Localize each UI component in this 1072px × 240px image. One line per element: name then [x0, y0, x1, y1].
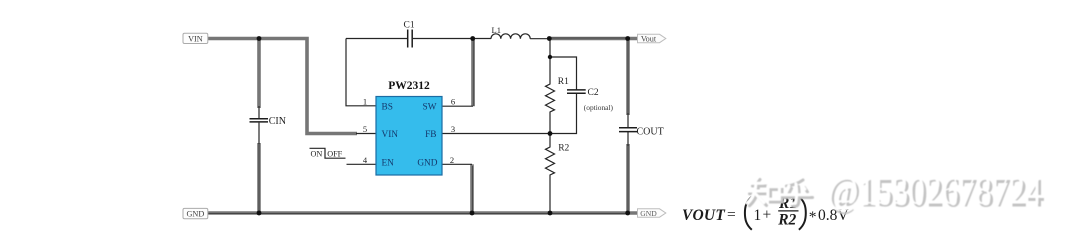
resistor R1	[546, 39, 555, 134]
port tag GND left	[183, 208, 208, 218]
svg-text:GND: GND	[187, 210, 205, 219]
svg-text:3: 3	[451, 124, 455, 134]
wire pin6 lead	[442, 105, 473, 107]
svg-text:VOUT: VOUT	[682, 207, 725, 224]
svg-text:6: 6	[451, 96, 455, 106]
capacitor CIN	[258, 106, 260, 118]
svg-text:GND: GND	[417, 159, 437, 169]
svg-text:2: 2	[450, 155, 454, 165]
wire SW net vertical	[471, 39, 475, 107]
node GND/COUT junction	[625, 211, 630, 216]
port tag VIN	[183, 33, 208, 43]
svg-text:L1: L1	[492, 25, 501, 35]
svg-text:VIN: VIN	[382, 130, 399, 140]
op-amp-style IC body PW2312 U1	[376, 97, 442, 176]
wire pin2 lead	[442, 163, 472, 165]
node GND/pin2 junction	[470, 211, 475, 216]
svg-text:CIN: CIN	[269, 116, 286, 127]
capacitor COUT	[627, 113, 629, 127]
svg-text:PW2312: PW2312	[388, 80, 430, 92]
wire pin4 EN lead	[347, 163, 377, 165]
port tag GND right	[638, 209, 666, 217]
svg-text:+: +	[763, 207, 772, 224]
node VIN/CIN junction	[257, 36, 262, 41]
wire CIN lower lead to GND rail	[257, 143, 261, 213]
svg-text:1: 1	[754, 207, 762, 224]
formula VOUT = (1 + R1/R2) * 0.8V	[682, 195, 849, 230]
wire GND rail	[208, 211, 638, 215]
ON/OFF control symbol at EN	[310, 148, 346, 158]
inductor L1	[491, 34, 530, 39]
wire pin3 FB to divider	[442, 133, 550, 135]
svg-text:FB: FB	[425, 130, 436, 140]
svg-text:1: 1	[363, 96, 367, 106]
node VOUT/L1 junction	[547, 36, 552, 41]
node FB junction	[548, 131, 553, 136]
wire SW to L1 to VOUT node	[473, 38, 491, 40]
wire COUT vertical upper	[626, 39, 630, 116]
resistor R2	[546, 134, 555, 214]
svg-text:EN: EN	[382, 159, 395, 169]
svg-text:VIN: VIN	[188, 34, 203, 43]
node GND/R2 junction	[548, 211, 553, 216]
capacitor C2 branch	[550, 57, 577, 90]
wire VIN branch down to CIN	[257, 37, 261, 108]
svg-text:=: =	[727, 207, 736, 224]
svg-text:BS: BS	[382, 103, 393, 113]
node VOUT/COUT junction	[625, 36, 630, 41]
svg-text:*: *	[809, 209, 817, 226]
capacitor C1	[407, 30, 409, 48]
wire COUT vertical lower	[626, 144, 630, 213]
node SW/C1 junction	[470, 36, 475, 41]
svg-text:R2: R2	[777, 211, 796, 228]
node GND/CIN junction	[257, 211, 262, 216]
svg-text:GND: GND	[640, 209, 657, 218]
wire BS branch vertical and pin1 lead	[346, 39, 376, 106]
svg-text:OFF: OFF	[327, 150, 342, 159]
wire C1 branch top (BS to SW bootstrap)	[346, 38, 407, 40]
wire VIN rail from tag to IC pin5	[208, 39, 357, 134]
node R1/C2 top junction	[548, 55, 552, 59]
svg-text:R2: R2	[558, 143, 569, 153]
svg-text:C2: C2	[588, 88, 599, 98]
svg-text:(optional): (optional)	[584, 103, 614, 112]
wire VOUT rail	[549, 37, 638, 41]
svg-text:5: 5	[363, 124, 367, 134]
svg-text:SW: SW	[423, 103, 437, 113]
svg-text:@15302678724: @15302678724	[827, 168, 1041, 212]
svg-text:ON: ON	[311, 150, 323, 159]
svg-text:Vout: Vout	[641, 34, 657, 43]
svg-text:C1: C1	[404, 20, 415, 30]
port tag Vout	[638, 34, 666, 42]
svg-text:R1: R1	[558, 77, 569, 87]
wire pin5 lead	[356, 133, 376, 135]
wire GND pin vertical	[470, 164, 474, 213]
svg-text:COUT: COUT	[637, 127, 664, 138]
